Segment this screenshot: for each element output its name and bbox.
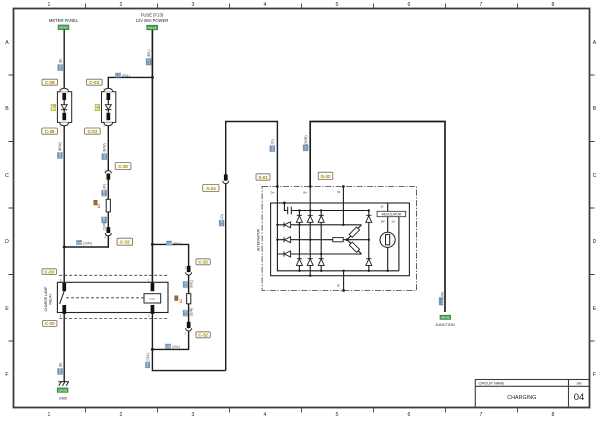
svg-text:F: F [5,372,8,378]
label col2 low [101,216,106,230]
svg-text:C-20: C-20 [44,269,54,274]
label junction wire [439,292,445,306]
label col3 bottom segment [145,353,150,369]
svg-text:B-: B- [337,284,340,288]
svg-text:(G): (G) [271,139,275,144]
svg-text:FUSE (F13): FUSE (F13) [141,12,164,17]
node bus col4 [368,209,370,211]
svg-text:3: 3 [192,412,195,418]
svg-text:D: D [5,239,9,245]
label branch y244 [166,241,181,246]
wire fuse F13 down to relay coil pin [151,30,153,284]
svg-text:(B/W): (B/W) [58,142,62,151]
svg-text:C-03: C-03 [88,129,98,134]
node star centre [346,238,349,241]
node phase2 col4 [368,239,370,241]
wire phase row 1 [277,224,361,226]
svg-text:0.85: 0.85 [183,309,187,315]
svg-text:5: 5 [96,106,100,108]
node phase3 col3 [320,253,322,255]
label D+ wire [270,139,275,152]
svg-text:1: 1 [184,331,186,335]
svg-text:REGULATOR: REGULATOR [382,212,402,216]
svg-text:0.85: 0.85 [58,64,62,70]
svg-text:3.0: 3.0 [304,146,308,151]
svg-text:5: 5 [336,2,339,8]
node bus col3 [320,209,322,211]
svg-text:C: C [593,173,597,179]
charge indicator diode box left (meter panel) [57,88,71,128]
svg-text:0.85: 0.85 [167,242,173,246]
svg-text:E: E [593,306,597,312]
small yellow id label of left diode [51,104,56,111]
svg-text:1: 1 [59,88,61,92]
node B+ terminal [309,185,312,188]
svg-text:CIRCUIT NAME: CIRCUIT NAME [479,382,505,386]
regulator box [377,211,406,216]
svg-text:5: 5 [336,412,339,418]
grid letters right [593,40,597,378]
node D+ bus row1 [276,224,278,226]
svg-text:D+: D+ [392,219,396,223]
svg-text:(B): (B) [58,363,62,368]
wire rectifier column 1 [298,211,300,271]
wire regulator sense leg [387,204,389,271]
relay pin numbers [60,279,150,318]
wire phase row 3 [277,253,361,255]
svg-text:1: 1 [103,88,105,92]
svg-text:A: A [593,40,597,46]
svg-text:(R/L): (R/L) [122,74,130,78]
wire rectifier column 4 centre tap [368,211,370,271]
svg-text:0.85: 0.85 [146,361,150,367]
inline connector C-30 on col2 [104,170,111,180]
node JUNCTION [440,315,451,319]
svg-text:C-20: C-20 [45,321,55,326]
svg-text:B: B [593,106,597,112]
svg-text:F: F [593,372,596,378]
svg-text:0.85: 0.85 [166,345,172,349]
wire relay coil bottom pin down [152,313,225,371]
charge indicator diode box right [102,88,116,128]
node D+ bus row2 [276,239,278,241]
svg-text:B: B [5,106,9,112]
svg-text:C-03: C-03 [90,80,100,85]
svg-text:(G/R): (G/R) [189,308,193,317]
wire regulator D+ leg [398,216,400,271]
wire stator winding upper diagonal [347,225,362,240]
ground symbol [58,382,68,386]
svg-text:(R/L): (R/L) [173,242,181,246]
svg-text:kΩ: kΩ [97,204,101,209]
svg-text:3.0: 3.0 [440,300,444,305]
wire branch col3 to resistor column C-32 [152,244,188,349]
svg-text:1: 1 [184,266,186,270]
svg-text:5: 5 [52,105,56,107]
wire capacitor branch from case to top bus [284,203,368,211]
svg-text:D+: D+ [271,190,275,194]
label col1 upper [58,59,63,71]
node col3/resistor column branch [151,243,154,246]
svg-text:2: 2 [104,170,106,174]
resistor on column C-32 [187,294,191,304]
alternator inner case box [271,203,410,276]
svg-text:GR-06: GR-06 [58,388,67,392]
resistor value label [175,296,183,304]
svg-text:(R/L): (R/L) [189,280,193,288]
svg-text:0.85: 0.85 [58,368,62,374]
label col1 mid [57,142,62,159]
wire B+ internal down to case [309,187,311,276]
node bottom bus col4 [368,270,370,272]
svg-text:3: 3 [60,279,62,283]
svg-text:(W): (W) [441,292,445,298]
label col2 upper [102,143,107,160]
svg-text:C-32: C-32 [198,333,208,338]
svg-text:kΩ: kΩ [179,299,183,304]
svg-text:FS-13: FS-13 [148,26,157,30]
svg-text:0.85: 0.85 [102,216,106,222]
svg-text:8: 8 [552,412,555,418]
node phase1 col1 [298,224,300,226]
node capacitor to case [283,202,286,205]
svg-text:0.85: 0.85 [77,241,83,245]
svg-text:0.85: 0.85 [58,152,62,158]
node W terminal [342,185,345,188]
rectifier bottom diodes [296,259,371,266]
svg-text:(G/R): (G/R) [103,222,107,231]
diode symbol [61,105,67,110]
svg-text:C: C [5,173,9,179]
node bottom bus col3 [320,270,322,272]
svg-text:MT-04: MT-04 [59,26,68,30]
svg-text:1.25: 1.25 [147,58,151,64]
wire D+ internal bus down left side to bottom bus [277,187,399,271]
node fuse branch [151,76,154,79]
svg-text:6: 6 [408,412,411,418]
node col1/col2 join [63,246,66,249]
svg-text:4: 4 [60,314,62,318]
inline connector C-32 on col2 [104,227,111,239]
rotor field winding [380,232,395,247]
diode symbol [105,105,111,110]
node bottom bus col1 [298,270,300,272]
svg-text:(B): (B) [59,59,63,64]
relay coil box [144,294,161,303]
svg-text:2: 2 [103,124,105,128]
node phase1 W [342,224,344,226]
svg-text:METER PANEL: METER PANEL [49,18,79,23]
svg-text:(G/L): (G/L) [172,345,180,349]
svg-text:2: 2 [59,124,61,128]
exciter diodes left column [284,222,291,257]
svg-text:12V 60A POWER: 12V 60A POWER [136,18,169,23]
wire meter panel to diode box C-28 [63,30,65,92]
svg-text:E: E [5,306,9,312]
svg-text:1: 1 [148,279,150,283]
relay pin bottom right [151,305,155,314]
svg-text:DF: DF [381,219,385,223]
svg-text:(G/L): (G/L) [146,353,150,361]
svg-text:(B/W): (B/W) [103,143,107,152]
label branch y77 [115,73,130,78]
svg-text:C-30: C-30 [118,164,128,169]
resistor on col2 [106,199,110,212]
svg-text:C-32: C-32 [198,260,208,265]
label col1 lower [57,363,62,375]
label col3 upper [146,49,151,65]
label branch y349 [165,344,180,349]
svg-text:0.85: 0.85 [102,189,106,195]
node bus col1 [298,209,300,211]
svg-text:S-01: S-01 [258,175,268,180]
svg-text:C-28: C-28 [45,129,55,134]
wire size/colour labels, horizontal wires [76,73,181,349]
node bottom bus B- [342,270,344,272]
charge lamp relay box [57,282,168,312]
svg-text:ALTERNATOR: ALTERNATOR [256,228,260,251]
small yellow id label of right diode [95,104,100,111]
title block [475,380,589,408]
svg-text:7: 7 [480,412,483,418]
svg-text:(R/L): (R/L) [147,49,151,57]
svg-text:0.85: 0.85 [220,219,224,225]
svg-text:8: 8 [552,2,555,8]
svg-text:04: 04 [574,392,585,403]
node B- boundary [342,289,345,292]
svg-text:W: W [337,190,340,194]
relay pin top left [62,283,66,291]
svg-text:1.25: 1.25 [116,74,122,78]
svg-text:A: A [5,40,9,46]
label col2 mid [101,184,106,196]
svg-text:C-32: C-32 [120,240,130,245]
svg-text:D: D [593,239,597,245]
svg-text:(G): (G) [220,214,224,219]
svg-text:RELAY: RELAY [49,293,53,305]
wire size/colour labels, vertical wires [57,49,444,374]
wire phase row 2 [277,239,368,241]
wire B- terminal drop [343,271,345,291]
svg-text:(G/R): (G/R) [83,241,92,245]
wire rectifier column 3 [320,211,322,271]
relay mechanical link [66,297,144,299]
svg-text:SH: SH [577,382,582,386]
node GND [57,388,68,393]
charge lamp relay dashed boundary [59,275,168,318]
svg-text:7: 7 [480,2,483,8]
svg-text:2: 2 [120,2,123,8]
node col2 case [309,275,311,277]
label resistor column upper [183,280,193,288]
svg-text:B+: B+ [303,190,307,194]
svg-text:3: 3 [192,2,195,8]
resistor value label col2 [94,200,101,208]
label A-24 column [219,214,224,227]
svg-text:1: 1 [48,412,51,418]
svg-text:CHARGE LAMP: CHARGE LAMP [44,286,48,311]
label B+ wire [303,135,308,151]
node bottom bus regulator [387,270,389,272]
node bus col2 [309,209,311,211]
svg-text:G-32: G-32 [321,174,331,179]
svg-text:SP-02: SP-02 [441,316,450,320]
svg-text:2: 2 [104,235,106,239]
svg-text:0.85: 0.85 [270,145,274,151]
grid numbers top [48,2,555,8]
connector labels (yellow) [42,79,333,338]
wire diode box C-03 down through resistor to junction with col1 [64,122,108,247]
node relay output join [151,348,154,351]
svg-text:2: 2 [148,314,150,318]
svg-text:2: 2 [120,412,123,418]
wire W terminal down to phase row 1 [342,187,344,225]
label resistor column lower [183,308,193,317]
inline connector A-24 [223,174,229,183]
wire A-24 column up and over to alternator D+ [226,122,278,371]
svg-text:JUNCTION: JUNCTION [435,323,454,327]
wire fuse branch to diode box C-03 [108,77,152,91]
svg-text:(W/R): (W/R) [304,135,308,144]
rectifier top diodes [296,215,371,222]
node phase2 col2 [309,239,311,241]
svg-text:A-24: A-24 [206,186,216,191]
svg-text:GND: GND [59,397,68,401]
node D+ terminal [276,185,279,188]
grid letters left [5,40,9,378]
relay switch blade [60,291,65,304]
svg-text:0.85: 0.85 [183,281,187,287]
svg-text:4: 4 [264,2,267,8]
wire relay switch pin to ground [63,313,65,382]
svg-text:D-: D- [381,205,384,209]
wire diode box C-28 to charge lamp relay pin [63,122,65,283]
svg-text:0.85: 0.85 [102,153,106,159]
svg-text:4: 4 [264,412,267,418]
alternator dash-dot boundary [262,187,416,291]
svg-text:6: 6 [408,2,411,8]
stator winding coils [333,227,360,252]
svg-text:C-28: C-28 [45,80,55,85]
wire stator winding lower diagonal [347,240,362,254]
label branch y247 [76,240,92,245]
alternator terminal labels [271,190,396,288]
svg-text:R06: R06 [150,297,156,301]
wire alternator B+ up and over to junction [310,122,445,313]
relay pin top right [151,283,155,291]
inline connector C-32 bottom of resistor column [184,322,191,336]
capacitor plates [288,207,292,215]
svg-text:(R): (R) [102,184,106,189]
relay pin bottom left [62,305,66,314]
inline connector C-32 top of resistor column [184,266,191,275]
grid numbers bottom [48,412,555,418]
svg-text:CHARGING: CHARGING [507,395,536,401]
svg-text:1: 1 [48,2,51,8]
